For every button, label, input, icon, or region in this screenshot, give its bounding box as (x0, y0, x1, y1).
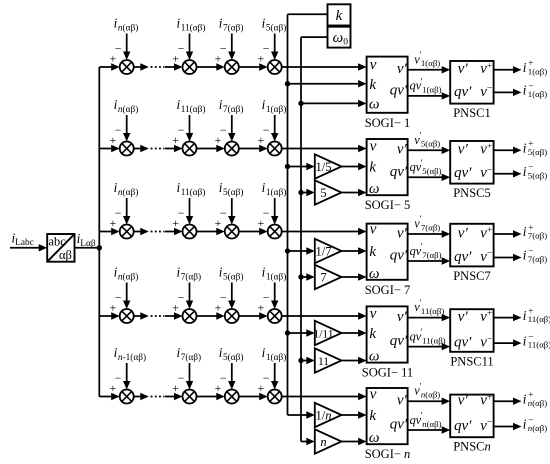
svg-text:v′: v′ (458, 61, 469, 77)
svg-text:i: i (523, 308, 527, 323)
svg-text:k: k (369, 408, 376, 424)
svg-text:−: − (263, 371, 270, 385)
svg-text:7(αβ): 7(αβ) (421, 222, 440, 232)
svg-text:k: k (369, 244, 376, 260)
svg-text:1(αβ): 1(αβ) (422, 85, 441, 95)
svg-text:−: − (178, 291, 185, 305)
svg-text:SOGI− 7: SOGI− 7 (365, 283, 411, 297)
svg-text:1/n: 1/n (316, 408, 332, 422)
svg-text:5(αβ): 5(αβ) (223, 187, 243, 198)
svg-text:1(αβ): 1(αβ) (266, 352, 286, 363)
svg-text:11: 11 (318, 356, 329, 368)
svg-text:5(αβ): 5(αβ) (528, 170, 547, 180)
svg-text:1/5: 1/5 (316, 160, 332, 174)
svg-text:5(αβ): 5(αβ) (528, 147, 547, 157)
svg-text:v: v (370, 306, 377, 322)
svg-text:1(αβ): 1(αβ) (266, 272, 286, 283)
svg-text:PNSC7: PNSC7 (453, 269, 491, 283)
svg-text:k: k (369, 77, 376, 93)
svg-text:qv′: qv′ (390, 333, 408, 349)
svg-text:n: n (320, 435, 326, 449)
svg-text:1(αβ): 1(αβ) (266, 104, 286, 115)
svg-text:SOGI− 5: SOGI− 5 (365, 198, 411, 212)
svg-text:ω: ω (369, 181, 380, 197)
svg-text:11(αβ): 11(αβ) (181, 23, 206, 34)
svg-text:7(αβ): 7(αβ) (223, 104, 243, 115)
svg-text:v′: v′ (458, 309, 469, 325)
svg-text:PNSC11: PNSC11 (450, 354, 493, 368)
svg-text:v′: v′ (397, 309, 408, 325)
svg-text:SOGI− 11: SOGI− 11 (362, 366, 413, 380)
svg-text:i: i (523, 417, 527, 432)
svg-text:i: i (523, 60, 527, 75)
svg-text:qv′: qv′ (454, 249, 472, 265)
svg-text:qv′: qv′ (454, 165, 472, 181)
svg-text:7(αβ): 7(αβ) (181, 272, 201, 283)
svg-text:SOGI− 1: SOGI− 1 (365, 116, 411, 130)
svg-text:n(αβ): n(αβ) (118, 187, 138, 198)
svg-text:v′: v′ (397, 393, 408, 409)
svg-text:qv′: qv′ (454, 84, 472, 100)
svg-text:1(αβ): 1(αβ) (528, 66, 547, 76)
svg-text:−: − (263, 206, 270, 220)
svg-text:i: i (523, 391, 527, 406)
svg-text:PNSCn: PNSCn (453, 440, 491, 454)
svg-text:i: i (523, 248, 527, 263)
svg-text:11(αβ): 11(αβ) (422, 335, 445, 345)
svg-text:5(αβ): 5(αβ) (422, 166, 441, 176)
svg-text:n(αβ): n(αβ) (528, 423, 547, 433)
svg-text:n-1(αβ): n-1(αβ) (118, 352, 146, 363)
svg-text:αβ: αβ (59, 248, 72, 262)
svg-text:qv′: qv′ (390, 164, 408, 180)
svg-text:k: k (369, 326, 376, 342)
svg-text:SOGI− n: SOGI− n (365, 447, 411, 461)
svg-text:11(αβ): 11(αβ) (181, 104, 206, 115)
svg-text:5(αβ): 5(αβ) (421, 139, 440, 149)
svg-text:k: k (336, 8, 343, 24)
svg-text:5(αβ): 5(αβ) (266, 23, 286, 34)
svg-text:7(αβ): 7(αβ) (422, 250, 441, 260)
svg-text:−: − (263, 42, 270, 56)
svg-text:n(αβ): n(αβ) (528, 398, 547, 408)
svg-text:1/11: 1/11 (313, 328, 333, 340)
svg-text:1(αβ): 1(αβ) (421, 58, 440, 68)
svg-text:1(αβ): 1(αβ) (528, 89, 547, 99)
svg-text:−: − (178, 123, 185, 137)
svg-text:abc: abc (49, 235, 67, 249)
svg-text:i: i (523, 141, 527, 156)
svg-text:−: − (220, 206, 227, 220)
svg-text:v′: v′ (458, 225, 469, 241)
svg-text:−: − (178, 206, 185, 220)
svg-text:−: − (115, 206, 122, 220)
svg-text:11(αβ): 11(αβ) (421, 306, 444, 316)
svg-text:i: i (523, 224, 527, 239)
svg-text:v: v (370, 57, 377, 73)
svg-text:v: v (370, 139, 377, 155)
svg-text:ω: ω (369, 97, 380, 113)
svg-text:−: − (178, 42, 185, 56)
svg-text:7(αβ): 7(αβ) (528, 254, 547, 264)
svg-text:−: − (263, 123, 270, 137)
svg-text:1(αβ): 1(αβ) (266, 187, 286, 198)
svg-text:5(αβ): 5(αβ) (223, 352, 243, 363)
svg-text:ω: ω (369, 266, 380, 282)
svg-text:n(αβ): n(αβ) (421, 390, 440, 400)
svg-text:qv′: qv′ (454, 418, 472, 434)
svg-text:ω: ω (369, 349, 380, 365)
svg-text:v′: v′ (397, 225, 408, 241)
svg-text:−: − (115, 371, 122, 385)
svg-text:−: − (178, 371, 185, 385)
svg-text:ω: ω (369, 430, 380, 446)
svg-text:7(αβ): 7(αβ) (223, 23, 243, 34)
svg-text:n(αβ): n(αβ) (118, 272, 138, 283)
svg-text:qv′: qv′ (390, 248, 408, 264)
svg-text:i: i (523, 164, 527, 179)
svg-text:v′: v′ (458, 142, 469, 158)
svg-text:11(αβ): 11(αβ) (181, 187, 206, 198)
svg-text:11(αβ): 11(αβ) (528, 340, 550, 350)
svg-text:n(αβ): n(αβ) (118, 104, 138, 115)
svg-text:−: − (263, 291, 270, 305)
svg-text:7(αβ): 7(αβ) (528, 231, 547, 241)
svg-text:5(αβ): 5(αβ) (223, 272, 243, 283)
svg-text:v′: v′ (397, 142, 408, 158)
svg-text:PNSC1: PNSC1 (453, 106, 491, 120)
svg-text:11(αβ): 11(αβ) (528, 314, 550, 324)
svg-text:i: i (523, 83, 527, 98)
svg-text:n(αβ): n(αβ) (118, 23, 138, 34)
svg-text:n(αβ): n(αβ) (422, 419, 441, 429)
svg-text:qv′: qv′ (454, 335, 472, 351)
svg-text:−: − (115, 291, 122, 305)
svg-text:−: − (115, 123, 122, 137)
svg-text:7: 7 (320, 270, 326, 284)
svg-text:−: − (220, 371, 227, 385)
svg-text:v: v (370, 222, 377, 238)
svg-text:5: 5 (320, 186, 326, 200)
svg-text:−: − (220, 123, 227, 137)
svg-text:v′: v′ (458, 393, 469, 409)
svg-text:7(αβ): 7(αβ) (181, 352, 201, 363)
svg-text:i: i (523, 333, 527, 348)
svg-text:qv′: qv′ (390, 83, 408, 99)
svg-text:−: − (115, 42, 122, 56)
svg-text:−: − (220, 42, 227, 56)
svg-text:v′: v′ (397, 61, 408, 77)
svg-text:k: k (369, 160, 376, 176)
svg-text:PNSC5: PNSC5 (453, 186, 491, 200)
svg-text:−: − (220, 291, 227, 305)
svg-text:v: v (370, 387, 377, 403)
svg-text:1/7: 1/7 (316, 244, 332, 258)
svg-text:qv′: qv′ (390, 417, 408, 433)
